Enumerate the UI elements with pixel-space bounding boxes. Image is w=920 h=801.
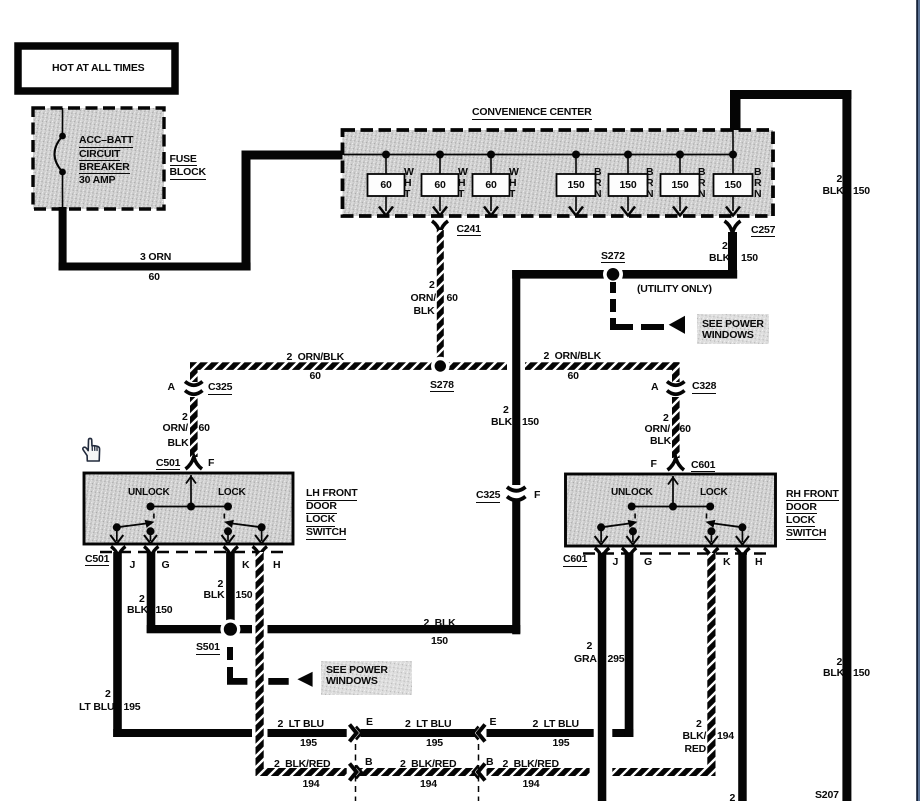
label ACC-BATT CIRCUIT BREAKER 30 AMP — [79, 135, 133, 148]
pin label K LH — [242, 560, 249, 571]
label FUSE BLOCK — [170, 154, 197, 167]
LH front door lock switch U1 box — [84, 473, 293, 544]
wire: top right feed riser — [730, 90, 741, 130]
label 2 LT BLU 195 segment 3 — [533, 719, 579, 730]
label 2 BLK 150 S501 run — [424, 618, 456, 629]
label (UTILITY ONLY) — [637, 284, 712, 295]
label A at C328 — [651, 382, 658, 393]
fuse value 150 F4 — [568, 180, 585, 191]
label C501 at F — [156, 458, 180, 471]
pin label H LH — [273, 560, 280, 571]
label BRN F6 — [698, 167, 705, 200]
wire: RH G drop joins LT BLU — [625, 553, 634, 737]
wire: left drop to C325 A — [190, 362, 198, 382]
dashed connector line E2-B2 — [478, 744, 480, 801]
connector B2 (BLK/RED) — [473, 764, 485, 781]
label 2 ORN/BLK 60 right run — [544, 351, 602, 362]
label LOCK RH — [700, 487, 728, 498]
label SEE POWER WINDOWS lower — [326, 665, 388, 687]
label B2 — [486, 757, 493, 768]
label BRN F7 — [754, 167, 761, 200]
label 2 BLK 150 at LH K — [218, 579, 224, 590]
label S207 — [815, 790, 839, 801]
label 2 BLK/RED 194 segment 2 — [400, 759, 456, 770]
label 2 BLK 150 right wire top — [837, 174, 843, 185]
screen right edge border — [916, 0, 920, 801]
wire: 2 ORN/BLK drop C328 to C601 F — [672, 397, 680, 458]
RH front door lock switch U2 box — [566, 474, 776, 546]
wire: LH G drop 2 BLK — [147, 552, 156, 633]
label 2 LT BLU 195 at LH J — [105, 689, 111, 700]
label LOCK LH — [218, 487, 246, 498]
label 3 ORN 60 — [140, 252, 171, 263]
see power windows callout (upper) — [697, 314, 769, 344]
wire: S272 dashed stub to see power windows — [610, 282, 664, 330]
connector E1 (LT BLU) — [350, 725, 362, 742]
label 2 ORN/BLK 60 left drop — [182, 412, 188, 423]
wire: right side 2 BLK 150 tall drop to S207 — [842, 90, 851, 801]
connector C501 F cap — [186, 457, 203, 469]
label 2 BLK/RED 194 at RH K — [696, 719, 702, 730]
wire: 2 BLK/RED horizontal row — [256, 768, 716, 776]
pin G cap RH — [622, 548, 637, 558]
wire: mid vertical 2 BLK 150 (S272 to lock circuit) — [512, 270, 520, 634]
label BRN F5 — [646, 167, 653, 200]
connector C325 A inline — [185, 382, 203, 395]
fuse value 60 F2 — [434, 180, 445, 191]
label 2 ORN/BLK 60 right drop — [663, 413, 669, 424]
label C501 bottom — [85, 554, 109, 567]
wire: LH H drop 2 BLK/RED hatched — [256, 552, 264, 776]
wire: 3 ORN riser — [242, 151, 251, 271]
label C601 at F — [691, 460, 715, 473]
label C601 bottom — [563, 554, 587, 567]
label UNLOCK RH — [611, 487, 653, 498]
wire: 2 LT BLU horizontal row — [113, 729, 633, 737]
connector C501 dashed line — [100, 551, 288, 553]
connector C325 F inline — [507, 487, 526, 500]
label C241 — [457, 224, 481, 237]
label 2 BLK 150 right wire bottom — [837, 657, 843, 668]
wire: top right feed horizontal — [730, 90, 851, 99]
fuse value 60 F1 — [380, 180, 391, 191]
label 2 GRA 295 at RH J — [587, 641, 593, 652]
pin H cap LH — [253, 547, 268, 557]
label WHT F1 — [404, 167, 414, 200]
wire: 2 BLK 150 from C257 down to S272 run — [728, 232, 737, 278]
label S278 — [430, 380, 454, 393]
fuse value 150 F5 — [620, 180, 637, 191]
label 2 LT BLU 195 segment 2 — [405, 719, 451, 730]
fuse value 150 F6 — [672, 180, 689, 191]
wire: 2 ORN/BLK drop C325 to C501 F — [190, 397, 198, 457]
label S501 — [196, 642, 220, 655]
pin J cap LH — [111, 547, 126, 557]
wire: 2 BLK 150 horizontal to S501 — [147, 625, 521, 633]
label C325 mid connector — [476, 490, 500, 503]
connector C241 cap — [432, 221, 448, 233]
connector C257 cap — [725, 221, 741, 233]
label SEE POWER WINDOWS upper — [702, 319, 764, 341]
connector E2 (LT BLU) — [473, 725, 485, 742]
wire: RH J drop 2 GRA 295 — [598, 553, 607, 801]
label 2 BLK/RED 194 segment 3 — [503, 759, 559, 770]
wire: 2 ORN/BLK drop from C241 to S278 — [437, 230, 444, 370]
arrow to see power windows (upper) — [669, 316, 685, 334]
pin K cap LH — [224, 547, 239, 557]
label B1 — [365, 757, 372, 768]
node S272 — [603, 264, 623, 284]
label 2 ORN/BLK 60 left run — [287, 352, 345, 363]
node S278 — [431, 357, 450, 376]
wire: LH J drop 2 LT BLU — [113, 552, 122, 737]
connector B1 (BLK/RED) — [350, 764, 362, 781]
fuse value 150 F7 — [725, 180, 742, 191]
pin label H RH — [755, 557, 762, 568]
circuit breaker CB (30A) — [55, 108, 66, 209]
label A at C325 — [168, 382, 175, 393]
LH switch internals — [110, 475, 268, 544]
fuse F4 150A — [557, 151, 596, 216]
connector C328 A inline — [667, 382, 685, 395]
label C328 — [692, 381, 716, 394]
fuse F7 150A — [714, 130, 753, 216]
label F pin LH — [208, 458, 214, 469]
node S501 — [220, 619, 240, 639]
label E1 — [366, 717, 373, 728]
see power windows callout (lower) — [321, 661, 412, 695]
pin label J LH — [130, 560, 136, 571]
wire: 3 ORN top run into convenience center — [242, 151, 344, 160]
convenience center bus line — [344, 154, 734, 156]
fuse F3 60A — [473, 151, 510, 216]
dashed connector line E1-B1 — [355, 744, 357, 801]
pin label G LH — [162, 560, 170, 571]
connector C601 F cap — [668, 458, 685, 470]
label CONVENIENCE CENTER — [472, 107, 592, 120]
label 2 BLK 150 at C257 — [722, 241, 728, 252]
pin J cap RH — [595, 548, 610, 558]
label 2 BLK 150 at LH G — [139, 594, 145, 605]
fuse block box — [33, 108, 164, 209]
fuse F2 60A — [422, 151, 459, 216]
wire: 3 ORN horizontal run — [59, 263, 251, 271]
label F mid connector — [534, 490, 540, 501]
arrow to see power windows (lower) — [297, 672, 312, 687]
label UNLOCK LH — [128, 487, 170, 498]
fuse value 60 F3 — [485, 180, 496, 191]
wire: RH K drop 2 BLK/RED hatched — [707, 553, 715, 776]
cursor hand pointer — [83, 438, 100, 461]
label LH FRONT DOOR LOCK SWITCH — [306, 488, 357, 501]
pin label G RH — [644, 557, 652, 568]
fuse F6 150A — [661, 151, 700, 216]
label 2 BLK/RED 194 segment 1 — [274, 759, 330, 770]
wire: S501 dashed stub to see power windows — [227, 647, 289, 685]
label HOT AT ALL TIMES — [52, 63, 144, 74]
label RH FRONT DOOR LOCK SWITCH — [786, 489, 839, 502]
connector C601 dashed line — [583, 552, 770, 554]
label C325 — [208, 382, 232, 395]
wire: RH H drop — [738, 553, 747, 801]
label E2 — [490, 717, 497, 728]
pin label K RH — [723, 557, 730, 568]
fuse F5 150A — [609, 151, 648, 216]
label BRN F4 — [594, 167, 601, 200]
label 2 ORN/BLK 60 at C241 drop — [429, 280, 435, 291]
HOT AT ALL TIMES box — [18, 46, 175, 91]
label F pin RH — [651, 459, 657, 470]
label 2 LT BLU 195 segment 1 — [278, 719, 324, 730]
pin G cap LH — [144, 547, 159, 557]
label S272 — [601, 251, 625, 264]
wire: right drop corner from ORN/BLK run to C328 — [672, 362, 680, 382]
wire: fuse block drop (3 ORN) — [59, 207, 67, 271]
wire: LH K drop 2 BLK — [226, 552, 235, 634]
RH switch internals — [595, 476, 749, 545]
label WHT F3 — [509, 167, 519, 200]
fuse F1 60A — [368, 151, 405, 216]
pin K cap RH — [704, 548, 719, 558]
label WHT F2 — [458, 167, 468, 200]
label 2 BLK 150 mid wire — [503, 405, 509, 416]
wire: left 2 ORN/BLK horizontal (S278 run) — [190, 362, 680, 370]
pin H cap RH — [735, 548, 750, 558]
label C257 — [751, 225, 775, 238]
pin label J RH — [613, 557, 619, 568]
convenience center box — [343, 130, 774, 216]
label 2 at RH H bottom — [730, 793, 736, 801]
wire: S272 horizontal 2 BLK 150 — [512, 270, 737, 279]
